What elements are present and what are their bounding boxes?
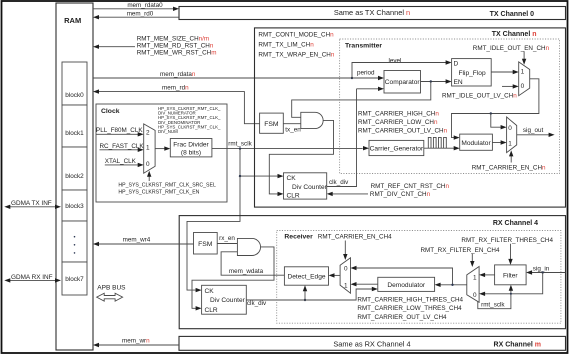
label RMT_CARRIER_EN + select arrow [472, 150, 546, 171]
Clock divider config tiny labels [158, 106, 221, 134]
Comparator U [384, 71, 421, 94]
label RMT_RX_FILTER_EN_CH4 + select arrow [421, 247, 500, 267]
Frac Divider box [155, 139, 212, 157]
svg-text:RMT_RX_FILTER_EN_CH4: RMT_RX_FILTER_EN_CH4 [421, 247, 500, 254]
Carrier_Generator U [363, 140, 424, 155]
wire rmt_sclk to TX div counter CK [239, 149, 284, 179]
wire tx_en [283, 124, 301, 134]
wire mem_rdn [93, 84, 260, 123]
svg-text:RMT_IDLE_OUT_LV_CHn: RMT_IDLE_OUT_LV_CHn [442, 93, 517, 100]
RAM block3 [62, 190, 87, 221]
svg-text:FSM: FSM [198, 241, 213, 248]
wire mem_wr4 [93, 236, 194, 246]
RX edge mux [340, 258, 350, 294]
svg-text:rmt_sclk: rmt_sclk [481, 301, 505, 308]
RX filter mux [467, 267, 479, 303]
svg-text:Receiver: Receiver [284, 234, 313, 241]
svg-text:RMT_IDLE_OUT_EN_CHn: RMT_IDLE_OUT_EN_CHn [473, 45, 550, 52]
wire period to Comparator [352, 70, 384, 81]
wire mem_rd0 [93, 10, 179, 19]
wire mem_wrn [93, 338, 179, 347]
svg-text:tx_en: tx_en [285, 127, 301, 134]
clock input PLL_F80M_CLK [96, 127, 144, 137]
clock config labels [118, 183, 216, 196]
svg-text:TX Channel 0: TX Channel 0 [490, 11, 534, 18]
svg-text:0: 0 [146, 161, 150, 168]
wire clk_div riser to Comparator [357, 87, 385, 91]
svg-text:RC_FAST_CLK: RC_FAST_CLK [100, 143, 145, 150]
svg-text:Transmitter: Transmitter [345, 43, 382, 50]
wire clk_div to comparator [327, 89, 357, 187]
wire sig_in bypass to mux 0 [479, 273, 543, 296]
svg-text:RX Channel 4: RX Channel 4 [493, 220, 538, 227]
RAM block0 [62, 62, 87, 105]
svg-text:Modulator: Modulator [461, 140, 491, 147]
svg-text:Demodulator: Demodulator [387, 282, 426, 289]
clock input RC_FAST_CLK [100, 143, 145, 152]
svg-text:mem_rd0: mem_rd0 [127, 10, 154, 17]
svg-text:rx_en: rx_en [219, 235, 235, 242]
RMT_MEM config labels + wire [93, 35, 216, 56]
wire Filter out to mux 1 [479, 273, 495, 277]
svg-text:RMT_MEM_WR_RST_CHm: RMT_MEM_WR_RST_CHm [137, 49, 217, 56]
svg-text:APB BUS: APB BUS [97, 284, 126, 291]
svg-text:sig_in: sig_in [533, 266, 550, 273]
wire branch to sig mux 0 [491, 114, 507, 130]
svg-text:clk_div: clk_div [329, 179, 349, 186]
svg-text:RMT_DIV_CNT_CHn: RMT_DIV_CNT_CHn [370, 191, 431, 198]
svg-text:mem_wdata: mem_wdata [229, 268, 264, 275]
svg-text:RMT_TX_LIM_CHn: RMT_TX_LIM_CHn [258, 41, 314, 48]
svg-text:block7: block7 [65, 276, 84, 283]
svg-text:sig_out: sig_out [523, 127, 544, 134]
svg-text:1: 1 [508, 140, 512, 147]
svg-text:HP_SYS_CLKRST_RMT_CLK_SRC_SEL: HP_SYS_CLKRST_RMT_CLK_SRC_SEL [118, 183, 216, 189]
svg-text:Same as TX Channel n: Same as TX Channel n [334, 8, 410, 17]
svg-text:RMT_REF_CNT_RST_CHn: RMT_REF_CNT_RST_CHn [371, 183, 450, 190]
wire Modulator to sig mux 1 [492, 140, 506, 144]
Demodulator U [378, 277, 435, 291]
svg-text:TX Channel n: TX Channel n [492, 31, 537, 38]
TX Channel n box [255, 28, 566, 207]
svg-text:XTAL_CLK: XTAL_CLK [105, 158, 137, 165]
svg-text:EN: EN [454, 79, 463, 86]
svg-text:RMT_CARRIER_LOW_THRES_CH4: RMT_CARRIER_LOW_THRES_CH4 [357, 305, 462, 312]
svg-text:Div Counter: Div Counter [292, 184, 328, 191]
svg-text:D: D [454, 60, 459, 67]
svg-text:RMT_TX_WRAP_EN_CHn: RMT_TX_WRAP_EN_CHn [258, 51, 334, 58]
clock mux select arrow [147, 171, 151, 181]
RAM ellipsis block [62, 221, 87, 262]
wire rx_en [217, 235, 237, 244]
wire rmt_sclk [212, 140, 363, 150]
svg-text:PLL_F80M_CLK: PLL_F80M_CLK [96, 127, 143, 134]
carrier waveform glyph [428, 137, 446, 148]
svg-text:mem_rdn: mem_rdn [162, 84, 189, 91]
svg-text:level: level [389, 57, 402, 64]
svg-text:(8 bits): (8 bits) [181, 149, 201, 156]
wire carrier to Modulator [424, 146, 460, 150]
sig_out mux [507, 117, 517, 153]
wire mem_rdata0 [93, 2, 179, 11]
TX FSM U [260, 113, 284, 133]
wire rmt_sclk to Filter [478, 285, 513, 309]
svg-text:block3: block3 [65, 203, 84, 210]
wire demod bypass to mux 0 [351, 266, 453, 285]
TX Channel 0 summary box [179, 7, 566, 20]
svg-text:RMT_MEM_RD_RST_CHn: RMT_MEM_RD_RST_CHn [137, 42, 214, 49]
svg-text:mem_wr4: mem_wr4 [123, 236, 151, 243]
svg-text:RX Channel m: RX Channel m [494, 342, 541, 349]
svg-text:2: 2 [146, 130, 150, 137]
TX Div Counter U [284, 173, 328, 200]
Modulator U [460, 134, 493, 150]
labels RMT_REF_CNT / RMT_DIV_CNT + wire [327, 183, 450, 198]
wire idle mux output loop to Modulator [452, 79, 539, 140]
wire sig_in [526, 266, 565, 275]
svg-text:HP_SYS_CLKRST_RMT_CLK_EN: HP_SYS_CLKRST_RMT_CLK_EN [118, 190, 199, 196]
RX Channel m summary box [179, 336, 566, 350]
clock input XTAL_CLK [105, 158, 144, 167]
Receiver dashed box [277, 231, 561, 324]
svg-text:block2: block2 [65, 173, 84, 180]
svg-text:mem_rdata0: mem_rdata0 [127, 2, 163, 9]
APB BUS [97, 284, 126, 301]
GDMA RX INF port [4, 274, 61, 283]
label RMT_IDLE_OUT_LV + wire [442, 84, 519, 99]
TX config labels [258, 31, 334, 58]
wire RX mux output to Detect_Edge [329, 273, 341, 277]
wire clk_div RX to Demodulator [246, 287, 377, 307]
svg-text:period: period [357, 70, 375, 77]
wire mem_rdatan [93, 71, 352, 78]
RX AND gate [237, 238, 260, 255]
RAM block7 [62, 262, 87, 295]
svg-text:0: 0 [508, 125, 512, 132]
GDMA TX INF port [4, 200, 61, 209]
svg-text:GDMA TX INF: GDMA TX INF [11, 200, 52, 207]
carrier thres labels [357, 297, 463, 321]
RX Div Counter U [202, 285, 247, 314]
svg-text:CK: CK [287, 175, 297, 182]
clock source mux [144, 124, 155, 173]
svg-text:1: 1 [344, 282, 348, 289]
idle output mux [519, 62, 530, 96]
svg-text:Frac Divider: Frac Divider [173, 142, 209, 149]
wire level to Flip_Flop D [352, 57, 452, 78]
svg-text:RMT_MEM_SIZE_CHn/m: RMT_MEM_SIZE_CHn/m [137, 35, 209, 42]
label RMT_RX_FILTER_THRES_CH4 + arrow [461, 237, 553, 265]
svg-text:Filter: Filter [503, 272, 518, 279]
RAM block1 [62, 105, 87, 147]
label RMT_CARRIER_EN_CH4 + select arrow [318, 234, 392, 260]
RAM block2 [62, 147, 87, 190]
svg-text:RMT_CARRIER_HIGH_CHn: RMT_CARRIER_HIGH_CHn [358, 111, 439, 118]
TX AND gate [301, 112, 323, 128]
wire Comparator to EN [421, 79, 452, 83]
Transmitter dashed box [340, 39, 560, 174]
wire RX AND output to Div Counter CLR [192, 247, 274, 311]
svg-text:Flip_Flop: Flip_Flop [459, 70, 486, 77]
svg-text:Same as RX Channel 4: Same as RX Channel 4 [333, 340, 410, 349]
svg-text:Clock: Clock [101, 108, 120, 115]
wire Demodulator out to mux 1 [351, 282, 378, 286]
wire clk to Detect_Edge [303, 285, 307, 301]
carrier config labels [358, 111, 448, 135]
svg-text:DIV_NUM: DIV_NUM [158, 129, 178, 134]
svg-text:RMT_CARRIER_OUT_LV_CHn: RMT_CARRIER_OUT_LV_CHn [358, 128, 448, 135]
svg-text:RMT_CARRIER_OUT_LV_CH4: RMT_CARRIER_OUT_LV_CH4 [357, 314, 447, 321]
svg-text:block0: block0 [65, 92, 84, 99]
svg-text:RMT_CARRIER_HIGH_THRES_CH4: RMT_CARRIER_HIGH_THRES_CH4 [357, 297, 463, 304]
wire sig_out [517, 127, 555, 137]
svg-text:Carrier_Generator: Carrier_Generator [370, 146, 424, 153]
svg-text:FSM: FSM [264, 121, 279, 128]
svg-text:rmt_sclk: rmt_sclk [228, 140, 252, 147]
svg-text:RAM: RAM [64, 16, 81, 25]
wire rightmux output to Demodulator [435, 283, 467, 287]
svg-text:Detect_Edge: Detect_Edge [287, 274, 325, 281]
svg-text:1: 1 [521, 69, 525, 76]
svg-text:0: 0 [344, 266, 348, 273]
svg-text:1: 1 [146, 145, 150, 152]
svg-text:CLR: CLR [205, 307, 218, 314]
RAM block [56, 3, 93, 350]
RX FSM U [194, 233, 218, 255]
svg-text:Div Counter: Div Counter [210, 297, 246, 304]
svg-text:mem_rdatan: mem_rdatan [160, 71, 196, 78]
svg-text:clk_div: clk_div [247, 300, 267, 307]
node mem_rdata split [351, 77, 353, 79]
svg-text:RMT_RX_FILTER_THRES_CH4: RMT_RX_FILTER_THRES_CH4 [461, 237, 553, 244]
Filter U [495, 265, 526, 285]
svg-text:mem_wrn: mem_wrn [122, 338, 150, 345]
svg-text:0: 0 [473, 292, 477, 299]
svg-text:RMT_CARRIER_LOW_CHn: RMT_CARRIER_LOW_CHn [358, 119, 438, 126]
Detect_Edge U [284, 267, 328, 285]
svg-text:RMT_CARRIER_EN_CHn: RMT_CARRIER_EN_CHn [472, 165, 546, 172]
wire TX AND output to Div Counter CLR [269, 120, 333, 196]
svg-text:block1: block1 [65, 130, 84, 137]
svg-text:RMT_CARRIER_EN_CH4: RMT_CARRIER_EN_CH4 [318, 234, 392, 241]
Flip_Flop U [452, 59, 492, 87]
RX Channel 4 box [179, 216, 565, 329]
wire rmt_sclk down to RX [187, 176, 240, 292]
Clock box [96, 104, 227, 202]
idle mux select arrow [522, 52, 526, 65]
svg-text:Comparator: Comparator [385, 79, 421, 86]
svg-text:0: 0 [521, 83, 525, 90]
svg-text:CLR: CLR [287, 193, 300, 200]
svg-text:CK: CK [205, 288, 215, 295]
wire Flip_Flop to idle mux [491, 70, 519, 74]
wire mem_wdata [221, 252, 284, 275]
svg-text:RMT_CONTI_MODE_CHn: RMT_CONTI_MODE_CHn [258, 31, 334, 38]
svg-text:1: 1 [473, 274, 477, 281]
wire comparator branch to AND gate [292, 82, 431, 118]
